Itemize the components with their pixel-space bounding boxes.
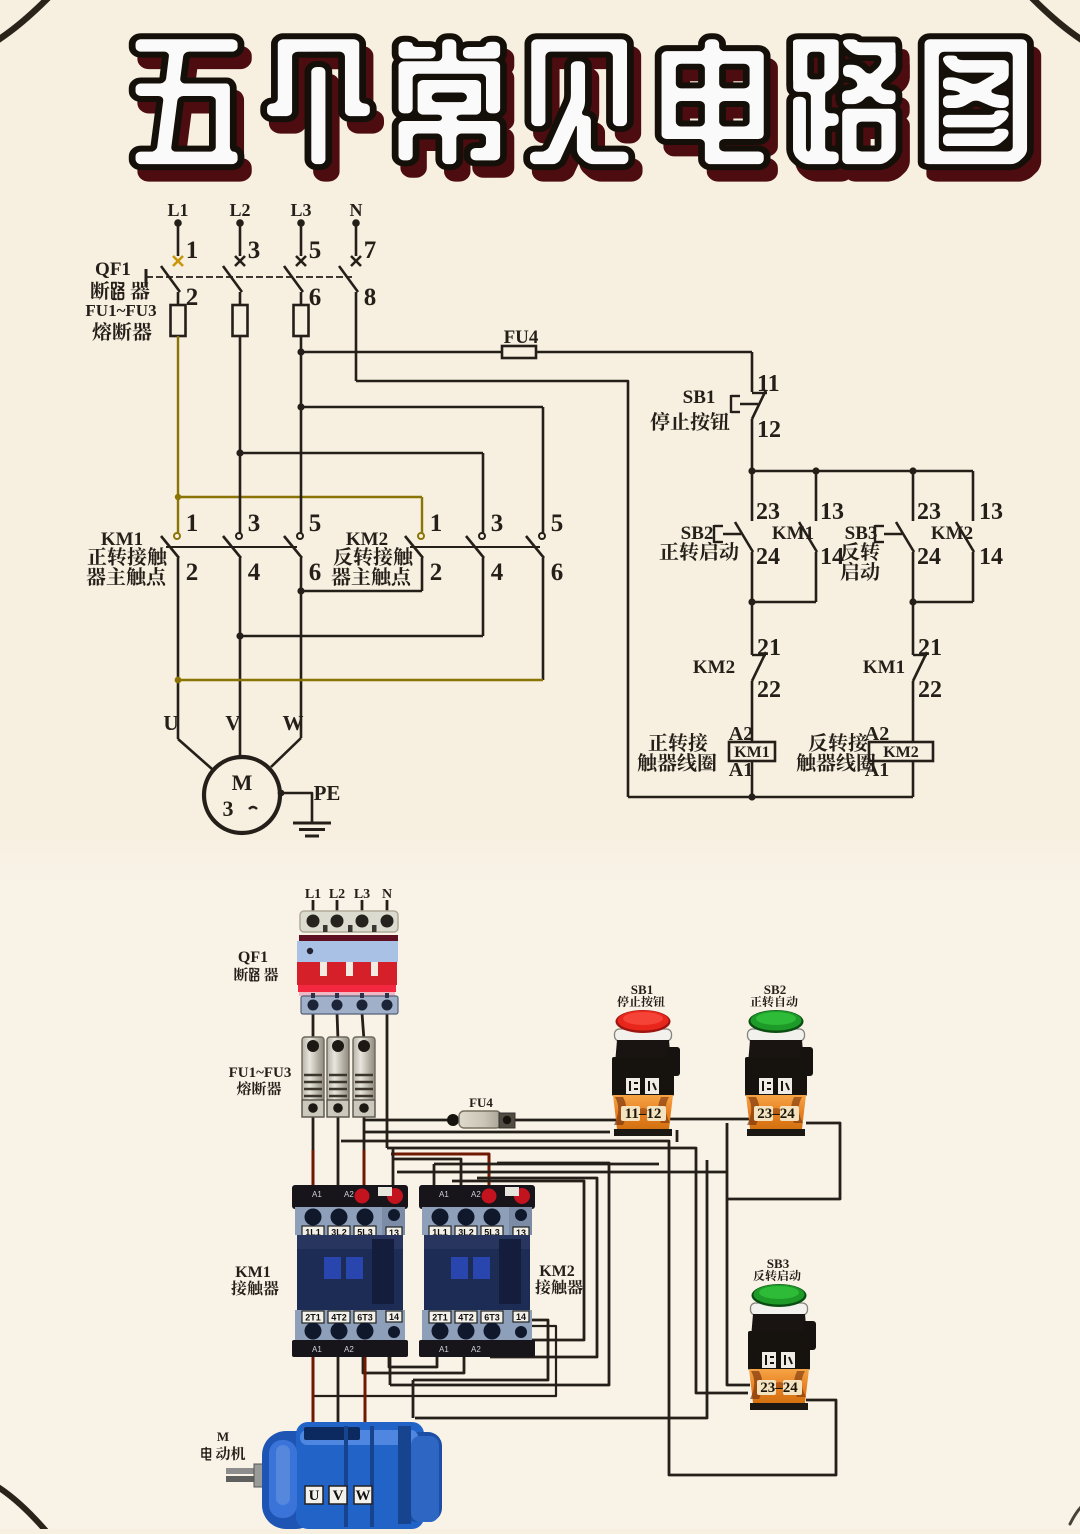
contact KM2 interlock (NC, 21-22)	[751, 602, 754, 655]
wire N feed to control circuit	[355, 292, 358, 381]
svg-text:5: 5	[309, 237, 322, 264]
svg-text:23: 23	[756, 499, 780, 525]
svg-text:M: M	[232, 770, 253, 795]
svg-text:3: 3	[248, 510, 261, 537]
wire L3 branch to KM2 pole3	[301, 406, 543, 409]
svg-text:3: 3	[491, 510, 504, 537]
wire phase feed through FU4	[301, 351, 502, 354]
contact KM2 aux (NO, 13-14)	[956, 522, 974, 552]
wire fuse3 to FU4	[364, 1119, 452, 1122]
fuses FU1~FU3 photo	[302, 1037, 324, 1101]
svg-text:L1: L1	[167, 200, 188, 220]
contactor KM1 main contacts	[174, 533, 180, 539]
svg-text:21: 21	[918, 635, 942, 661]
wire SB1 to SB2	[670, 1118, 750, 1121]
button SB2 forward (green) photo	[745, 982, 813, 1136]
svg-text:13: 13	[979, 499, 1003, 525]
contact KM1 interlock (NC, 21-22)	[912, 602, 915, 655]
svg-text:1: 1	[186, 237, 199, 264]
svg-text:14: 14	[389, 1312, 399, 1322]
svg-text:A1: A1	[439, 1190, 449, 1199]
contactor KM2 main contacts	[418, 533, 424, 539]
svg-text:KM1: KM1	[863, 657, 905, 678]
wire contactor interconnects	[389, 1352, 437, 1367]
svg-text:L1: L1	[305, 887, 321, 902]
svg-text:11–12: 11–12	[625, 1106, 662, 1122]
contactor KM1 photo	[292, 1185, 408, 1357]
svg-text:14: 14	[820, 544, 844, 570]
svg-text:A2: A2	[344, 1345, 354, 1354]
wire FU4 to SB1	[514, 1119, 616, 1122]
svg-text:W: W	[356, 1488, 371, 1504]
fuse FU1	[177, 292, 180, 305]
svg-text:14: 14	[979, 544, 1003, 570]
contact KM1 aux (NO, 13-14)	[799, 522, 817, 552]
wire run to KM2 coil	[393, 1159, 461, 1195]
svg-text:2T1: 2T1	[432, 1313, 448, 1323]
svg-text:SB3: SB3	[767, 1256, 790, 1271]
svg-text:2: 2	[430, 559, 443, 586]
wire PE	[278, 790, 285, 797]
svg-text:1: 1	[186, 510, 199, 537]
wire contactor outputs to motor	[312, 1352, 315, 1432]
svg-text:M: M	[217, 1429, 229, 1444]
svg-text:2T1: 2T1	[305, 1313, 321, 1323]
button SB2 forward start (NO)	[735, 522, 753, 552]
breaker linkage bar	[145, 269, 148, 286]
frame corner arc bottom-left	[0, 1487, 46, 1531]
svg-text:KM1: KM1	[235, 1264, 271, 1281]
svg-text:FU4: FU4	[469, 1095, 493, 1110]
svg-text:A2: A2	[471, 1345, 481, 1354]
wire L1 phase (olive)	[177, 336, 179, 533]
label KM2 接触器	[535, 1263, 582, 1294]
svg-text:FU1~FU3: FU1~FU3	[85, 301, 156, 320]
svg-text:5: 5	[551, 510, 564, 537]
wire run B to bottom loop	[341, 1141, 836, 1475]
svg-text:7: 7	[364, 237, 377, 264]
wire to motor U	[178, 739, 212, 769]
svg-text:A1: A1	[729, 759, 753, 781]
wire N run to SB3	[387, 1148, 748, 1393]
svg-text:5: 5	[309, 510, 322, 537]
svg-text:FU4: FU4	[504, 327, 539, 348]
svg-text:6: 6	[309, 284, 322, 311]
motor M 3~	[204, 757, 280, 833]
wire L1 branch to KM2 pole1 (olive)	[176, 496, 422, 498]
svg-text:KM2: KM2	[693, 657, 735, 678]
ground symbol	[293, 822, 331, 825]
svg-text:KM1: KM1	[772, 523, 814, 544]
svg-text:12: 12	[757, 417, 781, 443]
svg-text:8: 8	[364, 284, 377, 311]
svg-text:V: V	[333, 1488, 344, 1504]
svg-text:22: 22	[918, 677, 942, 703]
svg-text:L2: L2	[329, 887, 345, 902]
svg-text:22: 22	[757, 677, 781, 703]
wire run C to SB3	[397, 1171, 727, 1174]
wire to motor W	[271, 738, 301, 767]
svg-text:A1: A1	[312, 1345, 322, 1354]
svg-text:23–24: 23–24	[760, 1380, 798, 1396]
svg-text:2: 2	[186, 559, 199, 586]
title 五个常见电路图	[144, 51, 246, 176]
wire N down from breaker	[386, 1013, 389, 1148]
wire run D	[434, 1163, 659, 1166]
wire breaker to fuses	[312, 1013, 315, 1040]
svg-text:SB2: SB2	[681, 523, 714, 544]
svg-text:SB1: SB1	[683, 387, 716, 408]
frame corner arc bottom-right	[1070, 1506, 1080, 1524]
fuse FU4	[502, 346, 536, 358]
wire bundle right risers	[390, 1163, 609, 1385]
wire control bottom rail	[628, 796, 913, 799]
wire SB2 right loop	[727, 1123, 840, 1199]
svg-text:U: U	[163, 711, 178, 735]
svg-text:24: 24	[917, 544, 941, 570]
svg-text:A2: A2	[344, 1190, 354, 1199]
svg-text:QF1: QF1	[238, 949, 268, 966]
wire long riser	[415, 1160, 707, 1418]
wire breaker inputs	[312, 900, 315, 920]
label KM1 接触器	[231, 1264, 278, 1295]
svg-text:KM2: KM2	[539, 1263, 575, 1280]
svg-text:23–24: 23–24	[757, 1106, 795, 1122]
crossover wire A: KM1 pole3 to KM2 pole1	[421, 558, 424, 591]
wire KM1 pole outputs to motor and crossovers	[177, 558, 180, 739]
svg-text:21: 21	[757, 635, 781, 661]
svg-text:A2: A2	[471, 1190, 481, 1199]
crossover wire C: KM1 pole1 to KM2 pole3 (olive)	[542, 558, 545, 680]
button SB3 reverse start (NO)	[896, 522, 914, 552]
svg-text:4T2: 4T2	[331, 1313, 347, 1323]
svg-text:23: 23	[917, 499, 941, 525]
svg-text:KM2: KM2	[346, 529, 388, 550]
svg-text:13: 13	[820, 499, 844, 525]
wire control top rail	[752, 470, 973, 473]
svg-text:V: V	[225, 711, 240, 735]
wire fuse outputs to contactor KM1	[312, 1116, 315, 1152]
svg-text:4: 4	[248, 559, 261, 586]
svg-text:6: 6	[309, 559, 322, 586]
svg-text:QF1: QF1	[95, 259, 131, 280]
svg-text:3: 3	[223, 796, 234, 821]
frame corner arc top-right	[1032, 0, 1080, 40]
svg-text:FU1~FU3: FU1~FU3	[229, 1065, 292, 1081]
svg-text:14: 14	[516, 1312, 526, 1322]
svg-text:W: W	[283, 711, 304, 735]
svg-text:PE: PE	[314, 781, 341, 805]
svg-text:4T2: 4T2	[458, 1313, 474, 1323]
crossover wire B: KM1 pole2 to KM2 pole2	[482, 558, 485, 636]
svg-text:SB1: SB1	[631, 982, 653, 997]
button SB3 reverse (green) photo	[748, 1256, 816, 1410]
svg-text:6T3: 6T3	[357, 1313, 373, 1323]
breaker QF1 poles	[173, 256, 183, 266]
svg-text:4: 4	[491, 559, 504, 586]
svg-text:L3: L3	[290, 200, 311, 220]
wire L3 phase	[300, 336, 303, 533]
wire run A	[365, 1131, 610, 1134]
frame corner arc top-left	[0, 0, 48, 40]
wire red run to KM2	[391, 1154, 489, 1195]
svg-text:N: N	[382, 887, 392, 902]
svg-text:N: N	[350, 200, 363, 220]
svg-text:KM2: KM2	[931, 523, 973, 544]
wire rail SB3/KM2 join	[913, 601, 973, 604]
wire L2 branch to KM2 pole2	[240, 452, 483, 455]
svg-text:SB3: SB3	[845, 523, 878, 544]
wire SB1 base stub	[676, 1130, 679, 1142]
svg-text:6: 6	[551, 559, 564, 586]
svg-text:SB2: SB2	[764, 982, 786, 997]
svg-text:6T3: 6T3	[484, 1313, 500, 1323]
fuse FU3	[300, 292, 303, 305]
svg-text:A1: A1	[439, 1345, 449, 1354]
svg-text:KM1: KM1	[101, 529, 143, 550]
svg-text:L2: L2	[229, 200, 250, 220]
wire rail SB2/KM1 join	[752, 601, 816, 604]
svg-text:24: 24	[756, 544, 780, 570]
wire L2 phase	[239, 336, 242, 533]
svg-text:U: U	[309, 1488, 320, 1504]
contactor KM2 photo	[419, 1185, 535, 1357]
svg-text:A1: A1	[312, 1190, 322, 1199]
button SB1 stop (red) photo	[612, 982, 680, 1136]
svg-text:1: 1	[430, 510, 443, 537]
svg-text:2: 2	[186, 284, 199, 311]
svg-text:L3: L3	[354, 887, 370, 902]
fuse FU2	[239, 292, 242, 305]
svg-text:3: 3	[248, 237, 261, 264]
